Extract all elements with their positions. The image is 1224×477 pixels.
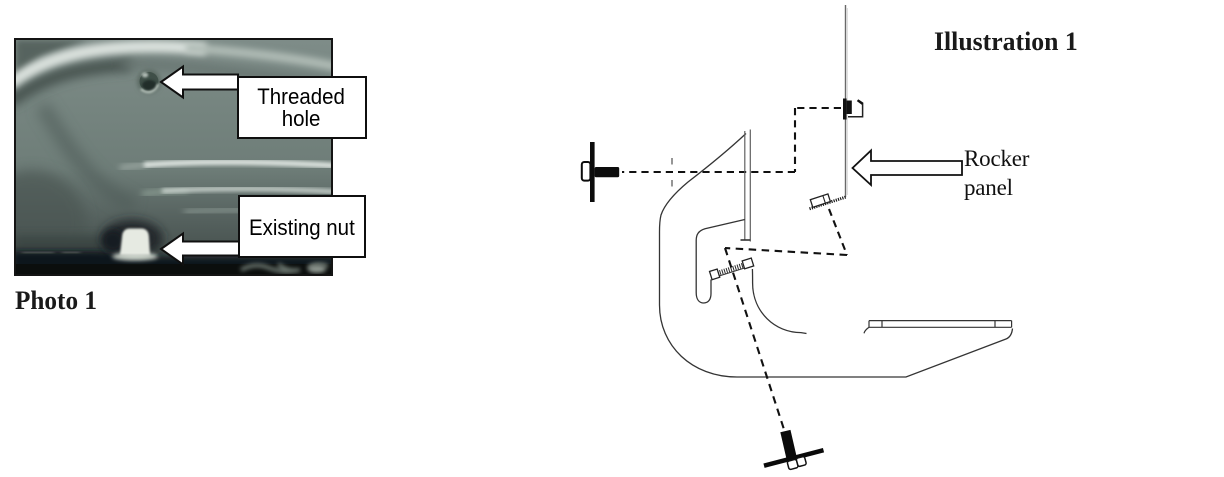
rocker panel vertical line [845, 5, 847, 197]
right flat plate [869, 321, 1012, 328]
bottom-left dark corner [0, 170, 86, 274]
photo 1 (rocker panel underside photograph) [14, 38, 333, 276]
bottom bolt B2 hex head [787, 456, 807, 470]
bracket jaw and hook [696, 220, 745, 304]
label box: Threaded hole [237, 76, 367, 140]
small light marks bottom left [22, 252, 80, 253]
left mid dark bead edge [42, 106, 134, 205]
bottom bolt B2 shaft [780, 430, 796, 459]
dark zone above band left [12, 236, 162, 256]
flange bolt near rocker panel [810, 197, 847, 209]
inner arc of lower jaw [752, 269, 806, 334]
dashed line: clip to corner [795, 107, 841, 109]
panel base [16, 40, 331, 274]
mid specular streak 2 [142, 190, 188, 194]
dark top-left corner above highlight [16, 40, 88, 86]
mid specular streak 3 [184, 210, 338, 212]
dashed line: flange bolt axis [829, 209, 847, 255]
dark trough under top highlight [10, 65, 131, 102]
white arrow to rocker panel [853, 151, 963, 186]
bracket slot double line [745, 130, 751, 242]
dashed line: jaw to bottom bolt [725, 248, 785, 431]
nut washer base ellipse [112, 253, 158, 261]
mid specular streak 1 [120, 165, 148, 169]
bottom bolt B2 washer [764, 450, 824, 466]
caption Photo 1 [15, 286, 97, 316]
bright top-left arc highlight [10, 47, 206, 84]
label box: Existing nut [238, 195, 367, 259]
threaded hole [137, 70, 161, 94]
dashed line: bolt axis horizontal [622, 171, 795, 173]
C-bracket outer outline [660, 134, 1013, 378]
debris bottom right [241, 264, 328, 272]
dashed line: corner to jaw [725, 248, 847, 255]
bolt B1 washer [590, 142, 595, 202]
angled stud in bracket [709, 258, 753, 280]
clip (j-nut) on rocker panel [843, 99, 847, 120]
arrow to threaded hole [161, 67, 238, 98]
dashed line: vertical drop [794, 108, 796, 172]
label Rocker panel [964, 144, 1029, 202]
arrow to existing nut [161, 234, 239, 265]
bolt B1 threaded shaft [595, 167, 620, 177]
existing nut (bright hex) [120, 229, 150, 256]
small center marks [671, 158, 673, 187]
existing nut dark surround [102, 220, 162, 256]
bolt B1 hex head [582, 162, 591, 181]
bottom bright streak [128, 258, 338, 261]
caption Illustration 1 [934, 27, 1078, 57]
bottom dark band [12, 251, 338, 278]
